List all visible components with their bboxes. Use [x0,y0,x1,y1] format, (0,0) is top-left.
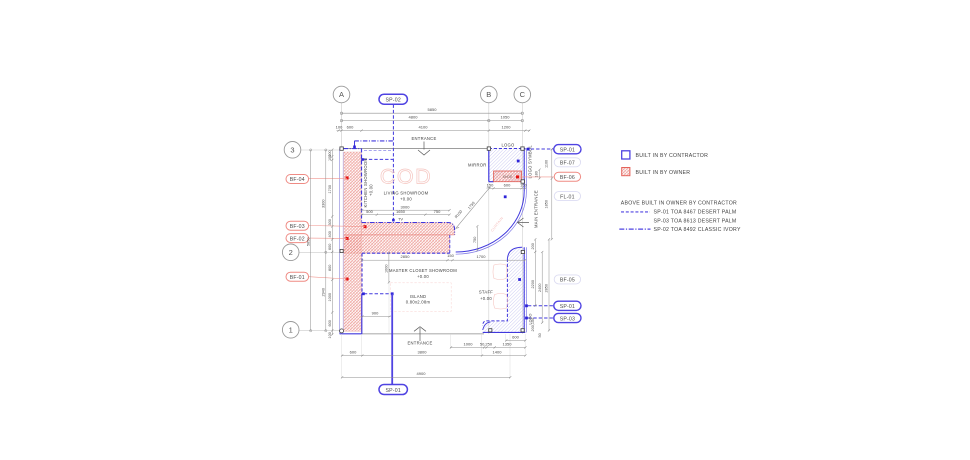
SP-02 tag (top) [379,94,407,104]
svg-text:2940: 2940 [321,288,325,296]
svg-text:2: 2 [289,248,293,257]
svg-text:COD: COD [380,165,432,189]
svg-text:SP-01: SP-01 [560,148,575,154]
svg-text:150: 150 [520,183,527,188]
svg-text:A: A [339,90,344,99]
staff wall vertical band hatch [507,247,525,332]
main entrance arrow (pointing left) [518,218,530,227]
svg-text:100: 100 [336,124,343,129]
svg-text:BF-06: BF-06 [560,175,575,181]
band top edge dash-dot [362,223,455,235]
svg-text:0.80x2.08m: 0.80x2.08m [406,300,431,305]
svg-text:SP-02 TOA 8492 CLASSIC IVORY: SP-02 TOA 8492 CLASSIC IVORY [654,227,741,233]
svg-text:1000: 1000 [464,342,474,347]
svg-text:KITCHEN SHOWROOM: KITCHEN SHOWROOM [363,158,368,208]
svg-text:SP-01: SP-01 [560,304,575,310]
TV wall hatched band upper (BF-03) [362,223,455,235]
chair outline lower (faint) [494,294,508,310]
island dashed rectangle [390,283,451,312]
bottom wall blue edge (left) [340,333,363,335]
dim 600 (staff door) [506,339,526,341]
svg-text:ISLAND: ISLAND [410,294,427,299]
dim 500/1650/750 [362,214,450,216]
svg-text:800: 800 [328,265,332,271]
svg-text:750: 750 [434,209,441,214]
blue marker below shoe [504,195,507,198]
ENTRANCE bottom arrow [414,327,426,341]
logo box right wall double line [523,149,525,192]
svg-text:1100: 1100 [545,160,549,168]
svg-text:BF-03: BF-03 [290,224,305,230]
marker square SP-03 staff [525,317,528,320]
band right step edge [449,235,451,253]
corner square staff top [521,250,524,253]
svg-text:500: 500 [366,209,373,214]
svg-text:600: 600 [504,183,511,188]
BF-02 tag [286,234,309,243]
left wall inner face solid (below island leader) [361,294,363,334]
staff wall rounded top corner [507,247,522,258]
blue marker logo box [517,160,520,163]
right dim chain staff 2850 [548,240,550,331]
kitchen dashed line horizontal [364,158,394,160]
right dashed leader to SP-01 top [525,148,553,150]
SP-01 tag (bottom) [379,385,407,395]
main entrance curved wall (double arc) [456,191,525,252]
top wall line (grid 3) [342,148,490,150]
svg-text:300: 300 [328,219,332,225]
svg-text:100: 100 [328,155,332,161]
diagonal dim 1750 [456,187,490,228]
svg-text:2200: 2200 [531,280,535,288]
staff wall inner dashed edge [483,259,508,326]
svg-text:+0.00: +0.00 [480,296,492,301]
svg-text:ENTRANCE: ENTRANCE [411,136,436,141]
svg-text:600: 600 [328,244,332,250]
svg-text:SP-02: SP-02 [385,97,400,103]
svg-text:50: 50 [538,333,542,337]
marker square end of SP-02 leader [392,219,395,222]
svg-text:4800: 4800 [409,114,419,119]
BF-06 tag [554,172,580,181]
svg-text:1350: 1350 [503,342,513,347]
right dim chain staff 2400 [541,252,543,323]
svg-text:TV: TV [398,216,403,221]
logo box left edge [488,149,490,182]
BF-01 tag [286,272,309,281]
marker square SP-01 staff [525,304,528,307]
island leader dashed [364,293,392,295]
svg-text:150: 150 [447,253,454,258]
svg-text:900: 900 [372,311,379,316]
grid bubble B [481,86,498,103]
dim 600/3800/1400 [342,355,526,357]
corner square top-left (A/3) [340,147,343,150]
svg-text:2850: 2850 [545,284,549,292]
legend swatch contractor [622,151,630,159]
svg-text:B: B [486,90,491,99]
svg-text:+0.00: +0.00 [400,197,412,202]
svg-text:200: 200 [531,243,535,249]
svg-text:BF-01: BF-01 [290,275,305,281]
svg-text:BF-07: BF-07 [560,161,575,167]
dim 150/600/150 under shoe [489,187,525,189]
dim 4900 overall [342,376,511,378]
svg-text:SP-03: SP-03 [560,316,575,322]
svg-text:750: 750 [473,237,477,243]
marker square on wall (SP-02) [353,146,356,149]
dim 750 vertical (curve) [476,227,478,251]
svg-text:150: 150 [487,183,494,188]
svg-text:MIRROR: MIRROR [468,162,486,167]
svg-text:C: C [520,90,526,99]
svg-text:STAFF: STAFF [479,290,493,295]
corner circle bottom-left (A/1) [340,329,344,333]
svg-text:600: 600 [512,335,519,340]
grid line A (vertical, light) [341,103,343,148]
band bottom edge dashed [362,252,450,254]
corner square logo top-right (C/3) [521,147,524,150]
BF-06 leader red [519,176,555,178]
corner square staff bar left [489,329,492,332]
svg-text:5850: 5850 [306,238,310,246]
kitchen counter dashed line light [364,149,392,151]
entrance top arrow [418,142,430,156]
dim 1000/50,250/1350 [450,346,525,348]
svg-text:MASTER CLOSET SHOWROOM: MASTER CLOSET SHOWROOM [389,268,457,273]
BF-04 leader [309,177,347,179]
dim 2850 / 150 / 1700 (below band) [362,259,526,261]
logo box hatch [489,149,525,182]
staff wall outer double line [523,247,525,332]
svg-text:5850: 5850 [428,107,438,112]
dimension row 4800 / 1050 [340,119,523,121]
red dot BF-02 [346,237,349,240]
svg-text:3800: 3800 [418,350,428,355]
SP-01 leader solid vertical [391,294,393,385]
SP-02 connector to wall [354,141,356,146]
blue marker staff BF-05 [518,278,521,281]
band divider red line [344,234,455,236]
SP-03 dashed leader (staff) [528,317,554,319]
svg-text:SP-01 TOA 8467 DESERT PALM: SP-01 TOA 8467 DESERT PALM [654,210,737,216]
svg-text:1200: 1200 [502,124,512,129]
svg-text:FL-01: FL-01 [560,194,575,200]
corner square logo top-left (B/3) [487,147,490,150]
red dot BF-01 [346,278,349,281]
FL-01 tag [554,192,580,201]
grid line B (vertical, light) [488,103,490,334]
svg-text:1700: 1700 [477,254,487,259]
svg-text:BF-02: BF-02 [290,236,305,242]
svg-text:SP-01: SP-01 [385,388,400,394]
BF-03 tag [286,221,309,230]
svg-text:400: 400 [328,231,332,237]
logo box bottom edge [489,181,494,183]
SP-01 tag (top right) [554,145,581,154]
marker square kitchen [361,158,364,161]
svg-text:4900: 4900 [417,371,427,376]
svg-text:BUILT IN BY OWNER: BUILT IN BY OWNER [636,170,691,176]
legend swatch owner [622,168,630,176]
staff wall bottom edge [483,331,526,333]
svg-text:1650: 1650 [396,209,406,214]
svg-text:BF-05: BF-05 [560,278,575,284]
left dim chain middle 3300/2940 [325,150,327,331]
grid bubble A [333,86,350,103]
svg-text:600: 600 [347,124,354,129]
corner square shoe bottom-right [521,180,524,183]
svg-text:180: 180 [535,171,539,177]
grid bubble 2 [282,244,299,261]
dimension row 100/600/4100/1200 [337,129,531,131]
bottom floor line (gray) [362,333,484,335]
svg-text:1400: 1400 [493,350,503,355]
top wall dash-dot overlay [344,148,362,150]
SP-01 dashed leader (staff) [528,305,554,307]
extension lines bottom [342,283,526,378]
BF-04 tag [286,175,309,184]
marker square island left [362,292,365,295]
grid bubble 3 [284,142,301,159]
dim 3000 (above TV wall) [362,209,450,211]
svg-text:1: 1 [289,326,293,335]
svg-text:LIVING SHOWROOM: LIVING SHOWROOM [384,191,429,196]
grid line 2 (horizontal, light) [299,251,344,253]
svg-text:SP-03 TOA 8613 DESERT PALM: SP-03 TOA 8613 DESERT PALM [654,219,737,225]
BF-05 tag [554,275,580,284]
grid line 3 (horizontal, light) [301,149,341,151]
svg-text:50,250: 50,250 [480,342,493,347]
grid bubble C [514,86,531,103]
svg-text:+0.00: +0.00 [369,184,374,196]
SP-02 leader vertical dashed [392,105,394,221]
svg-text:3300: 3300 [321,200,325,208]
hatched band lower (BF-02) [344,235,450,253]
left wall hatch (owner built) [344,152,362,331]
staff wall bottom bar hatch [483,321,508,332]
svg-text:SHOE: SHOE [503,175,513,179]
SP-02 dash-dot horizontal line [354,140,393,142]
grid line 1 (horizontal, light) [299,330,341,332]
left dim chain inner segments [331,150,333,335]
svg-text:3: 3 [290,146,294,155]
BF-03 leader [309,226,365,227]
svg-text:MAIN ENTRANCE: MAIN ENTRANCE [534,190,539,228]
grid bubble 1 [282,322,299,339]
svg-text:1000: 1000 [384,265,388,273]
dim 1000 vertical (band to island) [388,253,390,282]
left wall outer double line [339,149,341,334]
left wall inner face solid (kitchen) [361,149,363,222]
svg-text:2850: 2850 [401,254,411,259]
corner square staff bar right [521,329,524,332]
SP-03 tag (staff) [554,313,581,322]
svg-text:2400: 2400 [538,284,542,292]
svg-text:1700: 1700 [328,185,332,193]
marker square on SP-01 top leader [527,148,530,151]
svg-text:600: 600 [350,350,357,355]
BF-01 leader [309,277,347,279]
shoe cabinet (owner built) [494,171,522,182]
red dot BF-04 [346,176,349,179]
svg-text:ENTRANCE: ENTRANCE [407,341,432,346]
svg-text:BUILT IN BY CONTRACTOR: BUILT IN BY CONTRACTOR [636,153,709,159]
legend dash-dot line SP-02 [619,228,650,230]
dim 900 (island) [362,316,391,318]
legend dashed line SP-01 [621,211,650,213]
marker square island right [391,292,394,295]
svg-text:BF-04: BF-04 [290,177,305,183]
left wall inner face dashed (master closet) [361,253,363,293]
right dim chain 1100/1850 [551,150,553,240]
right dim chain staff 200/2200 [534,240,536,306]
svg-text:100: 100 [328,332,332,338]
svg-text:LOGO: LOGO [501,143,515,148]
chair outline upper (faint) [493,264,507,280]
svg-text:200,100: 200,100 [531,318,535,332]
dimension row 5850 [340,112,523,114]
corner square left wall grid2 [340,249,343,252]
svg-text:1000: 1000 [328,293,332,301]
SP-01 tag (staff) [554,301,581,310]
svg-text:1050: 1050 [501,114,511,119]
red dot BF-03 [364,225,367,228]
red dot shoe (BF-06) [516,175,519,178]
svg-text:+0.00: +0.00 [417,274,429,279]
BF-02 leader [309,237,347,239]
left dim chain outer 5850 [310,150,312,331]
logo box top dashed edge [489,148,525,150]
svg-text:ABOVE BUILT IN OWNER BY CONTRA: ABOVE BUILT IN OWNER BY CONTRACTOR [621,200,737,206]
svg-text:4100: 4100 [419,124,429,129]
BF-07 tag [554,158,580,167]
svg-text:1850: 1850 [545,200,549,208]
svg-text:600: 600 [328,320,332,326]
dim 180 (shoe) [539,170,541,179]
grid line C (vertical, light) [521,103,523,334]
